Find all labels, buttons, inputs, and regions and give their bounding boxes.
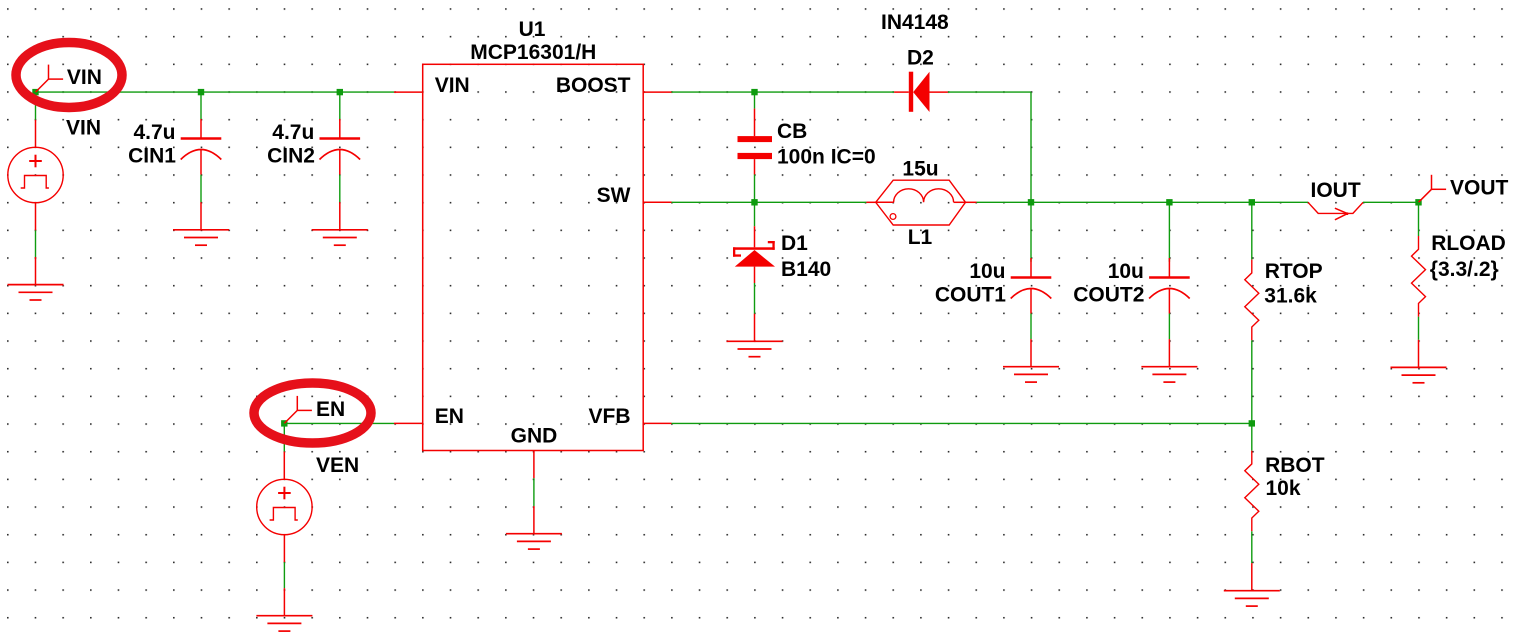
ground RBOT — [1224, 563, 1280, 606]
node CB boost junction — [751, 89, 757, 95]
label IOUT — [1311, 179, 1361, 202]
svg-text:10u: 10u — [1108, 260, 1144, 283]
ground U1 — [506, 506, 562, 549]
wire VOUT rail — [977, 201, 1308, 203]
wire EN — [284, 422, 394, 424]
wire corner down to SW rail — [1030, 92, 1032, 202]
svg-text:IN4148: IN4148 — [881, 11, 949, 34]
svg-text:4.7u: 4.7u — [133, 121, 175, 144]
wire RLOAD top — [1418, 202, 1420, 236]
svg-text:U1: U1 — [519, 18, 546, 41]
label U1 value MCP16301/H — [470, 41, 596, 64]
svg-text:CB: CB — [777, 120, 807, 143]
wire D1 to ground — [754, 283, 756, 314]
label CIN1 name — [128, 144, 176, 167]
resistor RLOAD — [1412, 236, 1426, 317]
label D1 name — [781, 232, 808, 255]
node EN junction — [281, 420, 287, 426]
svg-text:RLOAD: RLOAD — [1431, 232, 1506, 255]
pin label SW — [597, 184, 631, 207]
svg-text:COUT2: COUT2 — [1073, 283, 1144, 306]
ground D1 — [727, 314, 783, 357]
wire COUT1 top — [1030, 202, 1032, 261]
resistor RTOP — [1245, 260, 1259, 341]
wire D1 top — [754, 202, 756, 226]
label CB value 100n IC=0 — [777, 145, 876, 168]
wire CIN2 top — [339, 92, 341, 119]
label CIN2 name — [267, 144, 315, 167]
node CIN1 junction — [198, 89, 204, 95]
node COUT2 junction — [1166, 199, 1172, 205]
pin label VIN — [435, 74, 470, 97]
inductor L1 — [866, 180, 976, 225]
svg-text:{3.3/.2}: {3.3/.2} — [1430, 258, 1499, 281]
voltage source V2 VEN — [257, 452, 312, 563]
diode D2 — [894, 72, 948, 112]
current probe IOUT — [1308, 202, 1363, 220]
wire COUT2 top — [1168, 202, 1170, 261]
diode D1 schottky — [733, 226, 775, 283]
wire COUT2 bottom — [1168, 314, 1170, 340]
ground V1 — [8, 257, 64, 300]
wire SW rail left — [672, 201, 867, 203]
svg-text:MCP16301/H: MCP16301/H — [470, 41, 596, 64]
ground CIN1 — [173, 202, 229, 245]
svg-text:B140: B140 — [781, 258, 831, 281]
wire CB top — [754, 92, 756, 109]
svg-text:VIN: VIN — [435, 74, 470, 97]
svg-text:100n IC=0: 100n IC=0 — [777, 145, 876, 168]
svg-text:GND: GND — [511, 424, 558, 447]
label COUT1 name — [935, 283, 1006, 306]
node COUT1 junction — [1028, 199, 1034, 205]
label D1 value B140 — [781, 258, 831, 281]
svg-text:VOUT: VOUT — [1450, 177, 1509, 200]
ground CIN2 — [312, 202, 368, 245]
wire VEN top — [283, 423, 285, 451]
wire VEN to ground — [283, 562, 285, 588]
wire D2 to corner — [948, 91, 1031, 93]
svg-text:D2: D2 — [907, 47, 934, 70]
ground COUT2 — [1141, 339, 1197, 382]
svg-text:IOUT: IOUT — [1311, 179, 1361, 202]
net flag EN — [284, 396, 312, 424]
wire VFB — [672, 422, 1252, 424]
svg-text:VEN: VEN — [316, 454, 359, 477]
wire V1 to ground — [35, 230, 37, 257]
svg-text:VIN: VIN — [67, 66, 102, 89]
annotation ellipse around VIN flag — [16, 43, 122, 108]
node VFB RTOP RBOT junction — [1249, 420, 1255, 426]
node VOUT junction — [1415, 199, 1421, 205]
wire CIN2 bottom — [339, 175, 341, 203]
net flag VIN — [36, 65, 64, 93]
label D2 value IN4148 — [881, 11, 949, 34]
pin label EN — [435, 405, 464, 428]
wire RTOP to VFB node — [1251, 340, 1253, 423]
label L1 value 15u — [902, 158, 938, 181]
net flag VOUT — [1419, 175, 1447, 203]
label RTOP name — [1265, 260, 1323, 283]
wire VIN source top — [35, 92, 37, 120]
capacitor CIN2 — [320, 119, 361, 175]
ground VEN — [256, 588, 312, 631]
svg-text:VIN: VIN — [66, 117, 101, 140]
svg-text:RBOT: RBOT — [1265, 454, 1325, 477]
label RTOP value 31.6k — [1264, 285, 1317, 308]
svg-text:L1: L1 — [908, 226, 933, 249]
pin label GND — [511, 424, 558, 447]
wire COUT1 bottom — [1030, 314, 1032, 340]
label V1 name VIN — [66, 117, 101, 140]
label COUT1 value 10u — [969, 260, 1005, 283]
node VIN flag junction — [32, 89, 38, 95]
svg-text:RTOP: RTOP — [1265, 260, 1323, 283]
annotation ellipse around EN flag — [254, 383, 371, 443]
svg-text:COUT1: COUT1 — [935, 283, 1006, 306]
label CB name — [777, 120, 807, 143]
wire RTOP top — [1251, 202, 1253, 259]
label U1 reference — [519, 18, 546, 41]
capacitor COUT2 — [1149, 258, 1190, 314]
ground RLOAD — [1391, 340, 1447, 383]
wire U1 GND — [533, 478, 535, 506]
svg-text:10u: 10u — [969, 260, 1005, 283]
label RLOAD name — [1431, 232, 1506, 255]
svg-text:CIN1: CIN1 — [128, 144, 176, 167]
pin label VFB — [589, 405, 631, 428]
capacitor CIN1 — [181, 119, 222, 175]
pin label BOOST — [556, 74, 631, 97]
wire CIN1 bottom — [200, 175, 202, 203]
wire BOOST rail — [672, 91, 895, 93]
wire RLOAD bottom — [1418, 317, 1420, 340]
ground COUT1 — [1003, 339, 1059, 382]
capacitor CB — [738, 109, 773, 175]
svg-text:BOOST: BOOST — [556, 74, 631, 97]
capacitor COUT1 — [1011, 258, 1052, 314]
wire CB bottom — [754, 175, 756, 203]
svg-text:SW: SW — [597, 184, 631, 207]
label net VOUT — [1450, 177, 1509, 200]
label L1 name — [908, 226, 933, 249]
svg-text:EN: EN — [316, 398, 345, 421]
label CIN1 value 4.7u — [133, 121, 175, 144]
node CIN2 junction — [337, 89, 343, 95]
label net VIN — [67, 66, 102, 89]
op-amp U1 MCP16301/H regulator box — [394, 64, 672, 478]
label V2 name VEN — [316, 454, 359, 477]
wire RBOT top — [1251, 423, 1253, 450]
wire CIN1 top — [200, 92, 202, 119]
svg-text:EN: EN — [435, 405, 464, 428]
label D2 name — [907, 47, 934, 70]
svg-text:31.6k: 31.6k — [1264, 285, 1317, 308]
wire IOUT to VOUT node — [1363, 201, 1418, 203]
svg-text:15u: 15u — [902, 158, 938, 181]
resistor RBOT — [1245, 451, 1259, 532]
label RLOAD value {3.3/.2} — [1430, 258, 1499, 281]
node SW CB junction — [751, 199, 757, 205]
label CIN2 value 4.7u — [272, 121, 314, 144]
svg-text:D1: D1 — [781, 232, 808, 255]
wire RBOT bottom — [1251, 531, 1253, 563]
voltage source V1 VIN — [8, 120, 63, 231]
svg-text:4.7u: 4.7u — [272, 121, 314, 144]
wire VIN rail — [36, 91, 395, 93]
label net EN — [316, 398, 345, 421]
label RBOT name — [1265, 454, 1325, 477]
label COUT2 value 10u — [1108, 260, 1144, 283]
label COUT2 name — [1073, 283, 1144, 306]
label RBOT value 10k — [1266, 477, 1301, 500]
svg-text:CIN2: CIN2 — [267, 144, 315, 167]
node RTOP junction — [1249, 199, 1255, 205]
svg-text:10k: 10k — [1266, 477, 1301, 500]
svg-text:VFB: VFB — [589, 405, 631, 428]
